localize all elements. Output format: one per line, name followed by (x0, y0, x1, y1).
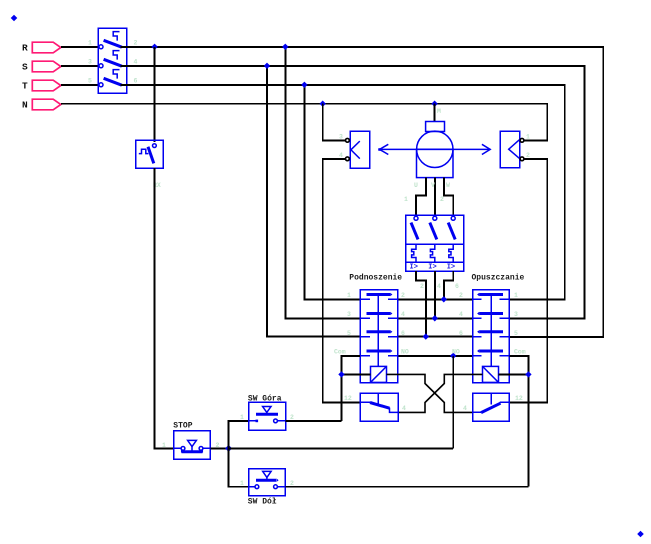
STOP contact stubs (174, 447, 211, 449)
svg-text:STOP: STOP (173, 422, 192, 431)
svg-text:6: 6 (459, 330, 463, 337)
svg-text:S: S (22, 61, 28, 72)
K2 aux link (490, 393, 492, 404)
rail 2 between contactors (398, 317, 473, 319)
K2 coil diagonal (483, 366, 499, 382)
K2 contact 4 stubs (473, 355, 510, 357)
K2 contact 3 stubs (473, 336, 510, 338)
junction dot N branch to motor (431, 101, 437, 107)
K2 contact 3 bar arrow (477, 330, 479, 333)
STOP bridge bar (182, 449, 203, 451)
row 4 holding wire between contactors (398, 355, 473, 357)
svg-text:V: V (431, 182, 435, 189)
K1 contact 1 bar (367, 293, 391, 296)
junction dot rail 1 (441, 296, 447, 302)
Q0 pole 1 mechanism hook (113, 32, 119, 41)
F1 pole 2 blade (430, 223, 437, 240)
svg-text:3: 3 (514, 311, 518, 318)
SW Dol left pin circle (255, 485, 259, 489)
K1 contact 4 stubs (360, 355, 397, 357)
SW Dol plunger stem (266, 477, 268, 480)
motor M1 body rectangle (417, 149, 454, 177)
SW Gora bridge bar (256, 413, 278, 416)
page marker dot bottom-right (637, 531, 644, 537)
K2 contact 1 bar (479, 293, 503, 296)
main switch Q0 body (98, 28, 127, 93)
svg-text:4: 4 (134, 59, 138, 66)
K1 aux link (377, 393, 379, 404)
K2 contact 2 bar (479, 312, 503, 315)
wire motor V to overload pole 2 (434, 178, 436, 216)
svg-text:SW Góra: SW Góra (248, 395, 282, 404)
svg-text:12: 12 (344, 395, 352, 402)
SW Gora plunger triangle (263, 407, 271, 413)
K2 contact 1 stubs (473, 298, 510, 300)
wire SW Gora output to K1 coil drop (286, 420, 342, 422)
wire R branch left vertical to rail 2 (285, 47, 360, 319)
K1 coil (371, 366, 387, 382)
svg-text:W: W (446, 182, 450, 189)
svg-text:5: 5 (514, 330, 518, 337)
svg-text:I>: I> (447, 264, 455, 272)
K2 aux blade (481, 403, 500, 412)
SW Dol plunger triangle (263, 471, 271, 477)
wire F1 pole 1 down to rail 3 (416, 271, 426, 337)
wire F1 pole 3 down to rail 1 (444, 271, 453, 299)
junction dot rail 3 (423, 333, 429, 339)
wire N dot down to motor (434, 104, 436, 122)
K1 coil diagonal (371, 366, 387, 382)
SQ1 bottom pin (346, 157, 350, 161)
K2 contact 1 bar arrow (477, 293, 479, 296)
svg-text:SW Dół: SW Dół (248, 498, 277, 507)
svg-text:Com: Com (334, 349, 346, 356)
SQ1 top pin (346, 138, 350, 142)
K1 contact 2 stubs (360, 317, 397, 319)
STOP button body (174, 431, 211, 460)
wire holding tap down to STOP line (452, 356, 454, 449)
SW Gora right pin circle (274, 419, 278, 423)
svg-text:2: 2 (459, 292, 463, 299)
wire R: switch Q0 to top-right corner and down to rail 3 (121, 47, 604, 337)
left limit switch SQ1 body (350, 131, 369, 168)
svg-text:1: 1 (526, 134, 530, 141)
svg-text:4: 4 (401, 311, 405, 318)
wire N branch down to left limit switch top pin (323, 104, 346, 141)
F1 pole 3 circle (451, 216, 455, 220)
SQ1 chevron (351, 141, 360, 159)
terminal S connector (32, 61, 61, 72)
S1 mechanism icon (139, 149, 149, 153)
F1 pole 3 blade (448, 223, 455, 240)
svg-text:2: 2 (401, 292, 405, 299)
K2 contact 2 stubs (473, 317, 510, 319)
svg-text:N: N (22, 99, 28, 110)
motor arrow left tip nub (378, 148, 381, 151)
overload breaker F1 body (406, 215, 464, 271)
svg-text:Com: Com (514, 349, 526, 356)
wire K1 coil left (342, 373, 371, 375)
K2 contact 3 bar (479, 330, 503, 333)
motor arrow left head (380, 144, 389, 154)
wire S branch left vertical to rail 3 (267, 66, 360, 337)
terminal N connector (32, 99, 61, 110)
F1 pole 2 heater (430, 244, 434, 262)
junction dot STOP output (225, 445, 232, 452)
Q0 pole 2 contact circle (99, 64, 103, 68)
aux contact K1 NC body (360, 393, 398, 421)
svg-text:I>: I> (410, 264, 418, 272)
wire K2 coil right (499, 373, 529, 375)
Q0 pole 3 blade (104, 78, 122, 85)
svg-text:U: U (414, 182, 418, 189)
wire F1 pole 2 down to rail 2 (434, 271, 436, 318)
svg-text:1: 1 (514, 292, 518, 299)
svg-text:NO: NO (452, 349, 460, 356)
F1 pole 1 circle (414, 216, 418, 220)
K2 contact 2 bar arrow (477, 312, 479, 315)
K2 coil (483, 366, 499, 382)
junction dot T branch (301, 82, 307, 88)
wire K1 coil right through crossover to K2 aux (387, 374, 473, 412)
svg-text:1: 1 (162, 442, 166, 449)
terminal T connector (32, 80, 61, 91)
junction dot S branch (264, 63, 270, 69)
svg-text:6: 6 (134, 78, 138, 85)
F1 pole 1 heater (412, 244, 416, 262)
SW Dol contact stubs (249, 486, 286, 488)
svg-text:NO: NO (401, 349, 409, 356)
K1 contact 2 bar arrow (390, 312, 392, 315)
F1 pole 3 heater (449, 244, 453, 262)
K1 actuator bar link (377, 295, 379, 367)
Q0 pole 3 mechanism hook (113, 70, 119, 79)
S1 blade (148, 147, 154, 164)
wire junction down to SW Dol (229, 448, 249, 486)
svg-text:1: 1 (404, 196, 408, 203)
wire SQ2 bottom pin down the right, to right aux contact (509, 159, 547, 402)
svg-text:2: 2 (420, 283, 424, 290)
wire T branch left vertical to rail 1 (304, 85, 360, 299)
K2 contact 4 bar (479, 350, 503, 353)
motor direction arrow shaft (380, 148, 491, 150)
contactor K1 body (360, 290, 397, 383)
K2 actuator bar link (490, 295, 492, 367)
svg-text:R: R (22, 42, 28, 53)
junction dot K1 coil (338, 371, 344, 377)
svg-text:4: 4 (459, 311, 463, 318)
svg-text:I>: I> (428, 264, 436, 272)
wire T terminal to switch Q0 (61, 84, 100, 86)
K1 contact 3 bar (367, 330, 391, 333)
junction dot K2 coil (525, 371, 531, 377)
wire control tap down to switch S1 (154, 47, 156, 142)
SW Dol right pin circle (274, 485, 278, 489)
wire T: switch Q0 to right corner and down to rail 1 (121, 85, 565, 299)
wire junction up to SW Gora (229, 421, 249, 449)
wire STOP output to holding tap (229, 447, 454, 449)
SQ2 chevron (509, 140, 520, 159)
svg-text:Opuszczanie: Opuszczanie (472, 274, 525, 283)
SW Dol bridge bar (256, 479, 276, 482)
K1 contact 3 bar arrow (390, 330, 392, 333)
STOP pin circles (181, 447, 185, 451)
svg-text:3: 3 (88, 59, 92, 66)
wire S1 down the left side to STOP button (155, 168, 174, 448)
svg-text:4: 4 (402, 405, 406, 412)
wire S terminal to switch Q0 (61, 65, 100, 67)
junction dot row 4 (450, 353, 456, 359)
svg-text:2: 2 (134, 40, 138, 47)
wire motor W to overload pole 3 (444, 178, 453, 216)
Q0 pole 2 mechanism hook (113, 51, 119, 60)
svg-text:5: 5 (88, 78, 92, 85)
SW Dol button body (249, 469, 286, 496)
motor arrow right head (482, 144, 490, 154)
junction dot N branch to left limit switch (320, 101, 326, 107)
K1 aux right step (390, 408, 399, 413)
SQ2 bottom pin (520, 157, 524, 161)
F1 pole 2 circle (433, 216, 437, 220)
wire R terminal to switch Q0 (61, 46, 100, 48)
right limit switch SQ2 body (500, 131, 520, 168)
svg-text:4: 4 (437, 283, 441, 290)
wire SQ1 bottom pin down to left aux contact (323, 159, 360, 402)
junction dot R tap for control (151, 44, 157, 50)
K1 contact 4 bar arrow (390, 349, 392, 352)
Q0 pole 2 blade (104, 59, 122, 66)
svg-text:3: 3 (339, 134, 343, 141)
K2 contact 4 bar arrow (477, 349, 479, 352)
svg-text:3: 3 (347, 311, 351, 318)
K1 aux blade (370, 403, 390, 409)
terminal R connector (32, 42, 61, 53)
F1 divider trip section (406, 261, 464, 263)
svg-text:6: 6 (401, 330, 405, 337)
K1 aux left stub (360, 401, 370, 403)
STOP bridge bar thick (182, 450, 203, 453)
rail 3 between contactors (398, 336, 473, 338)
aux contact K2 NC body (473, 393, 509, 421)
K2 aux right step (501, 401, 510, 404)
svg-text:T: T (22, 80, 28, 91)
wire K2 coil left through crossover to K1 aux (398, 374, 482, 412)
svg-text:1: 1 (347, 292, 351, 299)
motor M1 circle (417, 131, 453, 167)
STOP plunger stem (191, 447, 193, 451)
K1 contact 2 bar (367, 312, 391, 315)
switch S1 body (136, 140, 164, 168)
rail 1 between contactors (398, 298, 473, 300)
SQ2 top pin (520, 138, 524, 142)
Q0 pole 1 contact circle (99, 45, 103, 49)
svg-text:5: 5 (347, 330, 351, 337)
svg-text:M: M (437, 108, 441, 115)
contactor K2 body (473, 290, 510, 383)
wire K1 Com to coil junction and down to SW Gora wire (342, 356, 361, 421)
S1 contact circle (153, 144, 157, 148)
Q0 pole 3 contact circle (99, 83, 103, 87)
K2 aux left stub (473, 411, 481, 413)
svg-text:1: 1 (240, 414, 244, 421)
K1 contact 3 stubs (360, 336, 397, 338)
junction dot rail 2 (432, 315, 438, 321)
page marker dot top-left (11, 15, 18, 21)
svg-text:Podnoszenie: Podnoszenie (349, 274, 402, 283)
SW Dol bridge bar arrow (276, 478, 278, 482)
wire motor U to overload pole 1 (416, 178, 426, 216)
wire SW Dol output to K2 coil drop (285, 486, 528, 488)
K1 contact 1 stubs (360, 298, 397, 300)
K1 contact 1 bar arrow (390, 293, 392, 296)
wire N bus: terminal to right corner, down, to right limit switch top pin (61, 104, 547, 141)
junction dot R branch (282, 44, 288, 50)
wire S: switch Q0 to right corner and down to rail 2 (121, 66, 585, 318)
F1 divider heater section (406, 243, 464, 245)
svg-text:1: 1 (240, 480, 244, 487)
svg-text:6: 6 (455, 283, 459, 290)
SW Gora left pin square (256, 420, 259, 423)
SW Gora plunger stem (266, 412, 268, 414)
svg-text:12: 12 (515, 395, 523, 402)
F1 pole 1 blade (411, 223, 418, 240)
svg-text:4: 4 (463, 405, 467, 412)
K1 contact 4 bar (367, 350, 391, 353)
motor M1 terminal box (426, 122, 445, 132)
STOP plunger triangle (188, 440, 197, 446)
svg-text:2: 2 (440, 196, 444, 203)
Q0 pole 1 blade (104, 40, 122, 47)
wire STOP to junction (210, 447, 228, 449)
wire K2 Com to coil junction and down to SW Dol wire (509, 356, 528, 487)
svg-text:1: 1 (88, 40, 92, 47)
SW Gora contact stubs (249, 420, 286, 422)
SW Gora button body (249, 402, 286, 430)
